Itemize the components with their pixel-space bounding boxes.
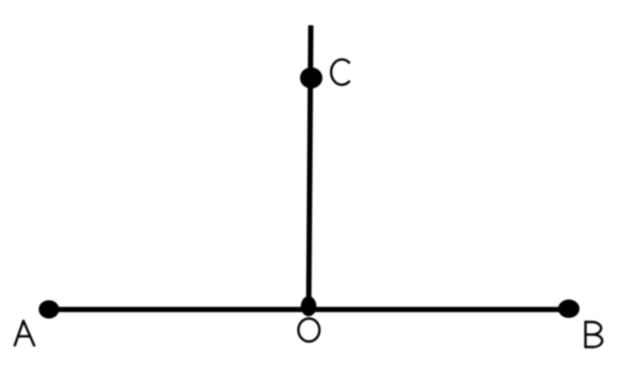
- wire: vertical segment O-C: [309, 25, 311, 309]
- label C: [331, 59, 350, 84]
- node C: [300, 67, 322, 88]
- wire: horizontal segment A-B: [49, 307, 569, 312]
- node B: [558, 300, 579, 318]
- label A: [14, 321, 34, 347]
- label O: [298, 319, 319, 342]
- node O: [301, 296, 317, 316]
- label B: [584, 322, 602, 347]
- node A: [39, 300, 59, 318]
